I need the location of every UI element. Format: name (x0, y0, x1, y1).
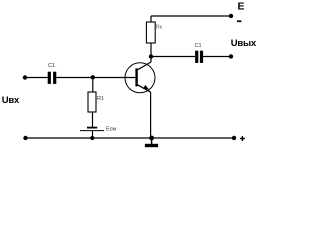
svg-text:C1: C1 (48, 63, 55, 69)
transistor collector lead (138, 62, 152, 70)
svg-text:Rк: Rк (156, 25, 163, 31)
resistor R1 (88, 92, 96, 112)
junction dot emitter-rail (149, 136, 154, 141)
svg-text:Uвых: Uвых (231, 38, 257, 49)
svg-text:R1: R1 (97, 96, 104, 102)
wire base (node A to transistor base) (93, 77, 136, 79)
terminal dot E (229, 14, 233, 18)
battery Ecm short plate (87, 127, 97, 129)
svg-text:E: E (238, 1, 245, 13)
transistor base bar (135, 68, 137, 86)
svg-text:C1: C1 (195, 43, 202, 49)
label minus (237, 20, 241, 22)
wire input to C1 (25, 77, 48, 79)
bottom left terminal dot (23, 136, 27, 140)
label plus (240, 136, 245, 141)
wire node B to output C1 (151, 56, 195, 58)
bottom rail wire (26, 137, 235, 139)
wire output C1 to terminal (203, 56, 231, 58)
transistor emitter lead (138, 85, 151, 92)
battery Ecm long plate (80, 130, 104, 132)
top rail wire (151, 15, 231, 17)
capacitor C1 (input) (48, 72, 57, 84)
junction dot battery-rail (90, 136, 94, 140)
input terminal dot (23, 75, 27, 79)
svg-text:Есм: Есм (106, 127, 116, 133)
wire R1 to battery (92, 112, 94, 127)
wire battery to bottom rail (92, 131, 94, 138)
resistor Rk (146, 22, 155, 43)
transistor emitter arrow (143, 85, 149, 90)
wire node B up to Rk (150, 43, 152, 57)
node A junction dot (91, 75, 95, 79)
emitter wire down to rail (150, 92, 152, 138)
wire C1 to node A (56, 77, 92, 79)
bottom right terminal dot (232, 136, 236, 140)
output terminal dot (229, 54, 233, 58)
node B junction dot (collector / Rk / output) (149, 54, 153, 58)
ground stub (151, 138, 153, 144)
ground bar (145, 144, 158, 147)
wire node A down to R1 (92, 78, 94, 93)
transistor VT1 circle (125, 63, 155, 93)
svg-text:Uвх: Uвх (2, 95, 20, 106)
wire Rk to top rail (150, 16, 152, 22)
collector wire up to node B (150, 57, 152, 63)
capacitor C1 (output) (195, 51, 203, 63)
